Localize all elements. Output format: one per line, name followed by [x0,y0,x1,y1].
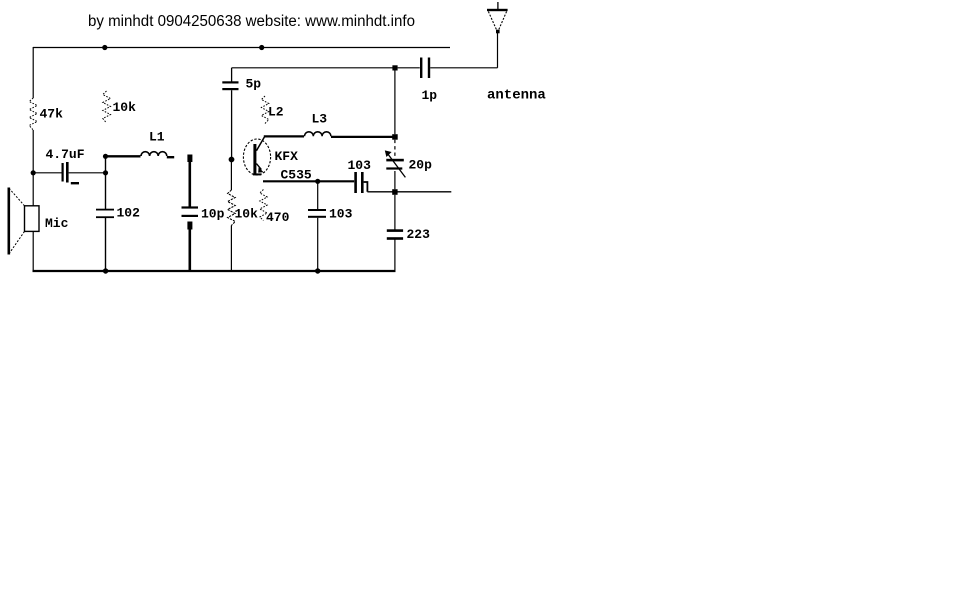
svg-text:5p: 5p [246,77,262,92]
capacitor C9 1p [392,58,497,79]
node junction dot at (105.5,156) [103,154,108,159]
wire left vertical middle [32,130,34,206]
value label 103 [329,207,353,222]
svg-text:1p: 1p [422,88,438,103]
wire left vertical upper [32,47,34,98]
value label 1p [422,88,438,103]
capacitor C2 102 [96,209,114,218]
label L2 [268,105,284,120]
capacitor C7 20p variable [385,150,406,177]
value label 47k [40,107,64,122]
svg-text:20p: 20p [409,158,433,173]
inductor L3 [305,132,393,137]
label C535 [281,168,312,183]
resistor R4 470 (emitter) [260,190,267,221]
svg-text:470: 470 [266,210,290,225]
transistor Q1 [243,137,270,175]
svg-text:103: 103 [348,158,372,173]
node junction dot on top rail at x=105 [102,45,107,50]
value label 103 [348,158,372,173]
svg-text:KFX: KFX [275,149,299,164]
inductor L1 [106,152,175,158]
label KFX [275,149,299,164]
svg-text:47k: 47k [40,107,64,122]
value label 10p [201,207,225,222]
node junction dot bottom rail x=318 [315,268,320,273]
value label 5p [246,77,262,92]
wire collector to L3 [264,135,304,137]
value label 20p [409,158,433,173]
wire central vertical x=394.9 [394,71,396,271]
value label 102 [117,206,141,221]
svg-text:102: 102 [117,206,141,221]
svg-text:223: 223 [407,227,431,242]
value label 223 [407,227,431,242]
inductor L2 (vertical coil) [261,96,268,124]
svg-text:L3: L3 [312,112,328,127]
node junction dot bottom rail x=106 [103,268,108,273]
value label 10k [113,100,137,115]
svg-text:Mic: Mic [45,216,69,231]
capacitor C6 103 series [354,172,367,193]
svg-text:10k: 10k [235,207,259,222]
node square junction L3/20p [392,134,398,140]
wire vertical x=105.5 [105,156,107,209]
wire bottom rail (ground return) [33,270,396,272]
wire left vertical lower [32,232,34,272]
value label 470 [266,210,290,225]
label L3 [312,112,328,127]
node junction dot (317.7,181.3) [315,179,320,184]
label L1 [149,130,165,145]
capacitor C3 10p with terminal squares [182,155,199,272]
capacitor C1 4.7uF [33,162,105,184]
wire below R3 to rail [230,226,232,272]
node junction dot at (105.5,173) [103,170,108,175]
antenna [487,2,508,68]
label antenna [487,88,546,104]
wire top2 rail y=68 (5p to antenna coupling) [232,67,395,69]
value label 10k [235,207,259,222]
node square junction (394.7,192) [392,189,397,195]
svg-text:103: 103 [329,207,353,222]
node junction dot on top rail at x=262 [259,45,264,50]
svg-text:antenna: antenna [487,88,546,104]
resistor R2 10k (floating upper) [103,91,111,123]
svg-text:L1: L1 [149,130,165,145]
wire from base node down [230,162,232,190]
capacitor C5 103 shunt [308,181,326,271]
value label 4.7uF [46,147,85,162]
svg-text:10p: 10p [201,207,225,222]
title text [88,13,415,30]
svg-text:by minhdt 0904250638 website:: by minhdt 0904250638 website: www.minhdt… [88,13,415,30]
wire emitter rail y=181.3 [263,180,354,182]
wire top rail [33,47,450,49]
node base junction dot (231,159.5) [229,157,235,163]
wire output y=191.8 [367,191,451,193]
wire below C2 to rail [105,218,107,271]
capacitor C4 5p [222,68,238,158]
svg-text:L2: L2 [268,105,284,120]
resistor R1 47k [29,98,37,130]
capacitor C8 223 [387,229,403,240]
resistor R3 10k (base to ground) [228,190,236,226]
microphone Mic [8,188,40,255]
svg-text:4.7uF: 4.7uF [46,147,85,162]
node junction dot at (33,173) [31,170,36,175]
label Mic [45,216,69,231]
svg-text:10k: 10k [113,100,137,115]
